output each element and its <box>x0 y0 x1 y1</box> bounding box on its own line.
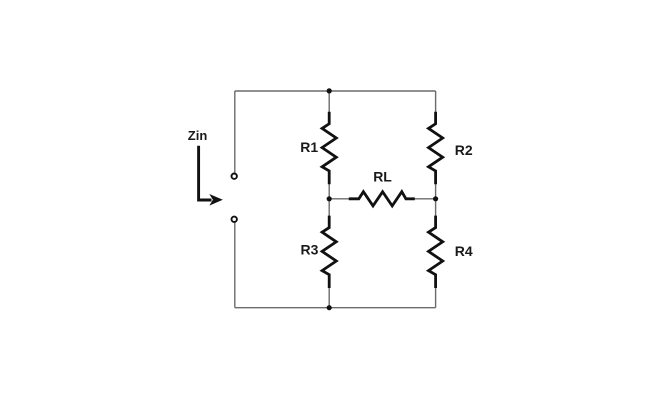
terminal: lower input port (open circle) <box>232 217 237 222</box>
resistor R4 <box>429 216 443 288</box>
wire: top rail from left wire to right branch <box>235 90 436 92</box>
wire: left vertical, lower terminal down to bottom rail <box>234 223 236 308</box>
wire: right branch, R4 to bottom rail <box>435 288 437 308</box>
wire: right branch, R2 to mid node B <box>435 184 437 199</box>
node junction dot: top rail / left branch <box>327 88 332 93</box>
terminal: upper input port (open circle) <box>232 174 237 179</box>
svg-text:Zin: Zin <box>188 128 208 143</box>
wire: bottom rail from left wire to right branch <box>235 307 436 309</box>
svg-text:R4: R4 <box>455 243 473 259</box>
wire: mid node A to RL left lead <box>329 198 349 200</box>
node A junction dot: mid left <box>327 196 332 201</box>
wire: left branch, mid node A to R3 <box>328 199 330 216</box>
wire: left vertical, top corner down to upper terminal <box>234 91 236 173</box>
svg-text:R2: R2 <box>455 142 473 158</box>
wire: left branch, R1 to mid node A <box>328 184 330 199</box>
Zin arrowhead <box>209 194 223 206</box>
wire: left branch, top rail to R1 <box>328 91 330 113</box>
wire: RL right lead to mid node B <box>414 198 435 200</box>
Zin arrow (bent pointer toward input port) <box>199 146 212 200</box>
resistor R3 <box>322 216 336 288</box>
wire: left branch, R3 to bottom rail <box>328 288 330 308</box>
svg-text:RL: RL <box>373 169 392 185</box>
wire: right branch, mid node B to R4 <box>435 199 437 216</box>
resistor R1 <box>322 112 336 184</box>
resistor RL (horizontal) <box>349 192 415 206</box>
wire: right branch, top rail to R2 <box>435 91 437 113</box>
svg-text:R1: R1 <box>300 139 318 155</box>
node B junction dot: mid right <box>433 196 438 201</box>
node junction dot: bottom rail / left branch <box>327 305 332 310</box>
svg-text:R3: R3 <box>301 242 319 258</box>
resistor R2 <box>429 112 443 184</box>
